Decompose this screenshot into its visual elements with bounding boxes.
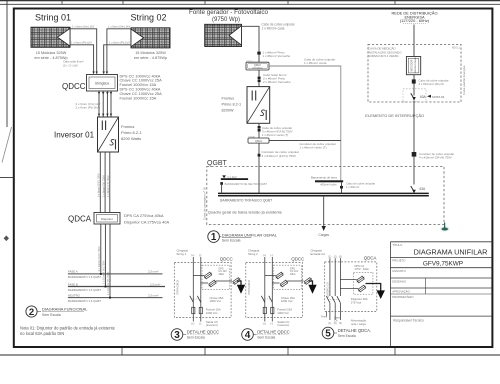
fuse label	[206, 307, 221, 314]
left diamond mark	[4, 236, 9, 242]
svg-text:Sem Escala: Sem Escala	[42, 313, 61, 317]
row line under TITULO	[391, 256, 493, 258]
fuse positive	[263, 307, 266, 313]
svg-text:4 x #16mm² (3F+N): 4 x #16mm² (3F+N)	[419, 82, 444, 86]
column divider	[425, 278, 427, 294]
svg-text:NORMA ND.5.1 CEMIG: NORMA ND.5.1 CEMIG	[368, 54, 399, 58]
svg-text:DETALHE QDCA.: DETALHE QDCA.	[338, 328, 371, 333]
wires stringbox to inverter	[99, 91, 111, 117]
top trim line	[0, 3, 500, 5]
svg-text:1 x #6mm² verde (T): 1 x #6mm² verde (T)	[262, 133, 288, 137]
svg-text:Fonte gerador - Fotovoltaico: Fonte gerador - Fotovoltaico	[189, 9, 269, 16]
svg-text:8200 Watts: 8200 Watts	[121, 136, 141, 141]
varistor earth side	[303, 277, 312, 285]
row line above Responsavel	[391, 315, 493, 317]
wire positive pole	[264, 257, 266, 322]
svg-text:Nota 01: Disjuntor do padrão d: Nota 01: Disjuntor do padrão de entrada …	[20, 326, 116, 331]
grid service wire	[413, 25, 415, 57]
svg-text:Caixa de passagem nº 65: Caixa de passagem nº 65	[202, 187, 206, 220]
QDCC stringbox (functional)	[87, 75, 118, 92]
breaker blade 1	[326, 296, 330, 303]
svg-text:1 x 6mm (Pt) 1kV: 1 x 6mm (Pt) 1kV	[109, 41, 130, 45]
svg-text:8200W: 8200W	[222, 109, 234, 113]
svg-text:em série - 4.875Wp: em série - 4.875Wp	[34, 56, 67, 60]
svg-text:MEDIDOR: MEDIDOR	[410, 60, 413, 72]
detail callout 1	[208, 231, 278, 243]
svg-text:(+): (+)	[191, 322, 194, 325]
fases label	[334, 315, 342, 322]
QDCC detail dashed enclosure	[246, 263, 303, 318]
DPS rating text	[290, 267, 299, 276]
switch blade positive	[190, 296, 194, 303]
detail callout 5	[322, 327, 371, 340]
svg-text:QDCC: QDCC	[220, 256, 233, 261]
svg-text:(2): (2)	[334, 255, 337, 258]
svg-text:(2): (2)	[334, 322, 337, 325]
switch label	[281, 296, 295, 303]
svg-text:(1): (1)	[328, 322, 331, 325]
svg-text:(3): (3)	[339, 255, 342, 258]
svg-text:FASE A: FASE A	[68, 270, 78, 274]
DPS CA rating text	[355, 264, 370, 271]
wire fase 2	[334, 258, 336, 320]
fuse negative	[199, 307, 202, 313]
row line under PROJETO	[391, 267, 493, 269]
svg-text:4: 4	[245, 330, 251, 341]
row line under APROVACAO	[391, 293, 493, 295]
switch gang dashed link	[263, 298, 271, 300]
energy meter	[406, 56, 420, 74]
svg-text:String 1: String 1	[177, 252, 187, 256]
bus line fase B	[68, 286, 165, 288]
svg-text:15 Módulos 325W: 15 Módulos 325W	[36, 51, 67, 55]
fuse positive link	[192, 307, 194, 313]
ground run QDCC to earth bar	[269, 66, 341, 181]
PV array String 01	[31, 27, 70, 47]
svg-text:Sem Escala: Sem Escala	[187, 336, 205, 340]
svg-text:2: 2	[29, 307, 34, 318]
wire QDCA to QGBT bus	[258, 143, 260, 193]
svg-text:(-): (-)	[270, 254, 273, 257]
svg-text:3 x 6mm² (F,F) 750V: 3 x 6mm² (F,F) 750V	[96, 173, 100, 197]
svg-text:Fronius: Fronius	[222, 97, 235, 101]
wire enclosure to junction	[413, 102, 415, 185]
switch blade negative	[269, 296, 273, 303]
incoming label string	[248, 249, 260, 257]
DPS output wire	[288, 280, 304, 282]
svg-text:15 Módulos 325W: 15 Módulos 325W	[135, 51, 166, 55]
wire meter to breaker	[413, 75, 415, 96]
fuse positive link	[264, 307, 266, 313]
tap wire to DPS 2	[272, 282, 279, 284]
meter output connector	[412, 79, 416, 83]
svg-text:275V - 40kA: 275V - 40kA	[355, 267, 370, 271]
earth busbar	[315, 180, 343, 182]
svg-text:1 x 6mm² (T) 750V: 1 x 6mm² (T) 750V	[106, 175, 110, 197]
svg-text:DETALHE QDCC: DETALHE QDCC	[187, 329, 220, 334]
svg-text:Sem Escala: Sem Escala	[257, 336, 275, 340]
svg-text:ND.5.1: ND.5.1	[452, 46, 460, 49]
cable rotated labels below QDCA	[97, 246, 110, 295]
wire breaker to box edge	[413, 101, 415, 102]
varistor DPS 2	[208, 279, 217, 287]
svg-text:Sem Escala: Sem Escala	[222, 238, 241, 242]
bottom tick x205	[204, 347, 206, 355]
svg-text:275 Vca: 275 Vca	[351, 301, 362, 305]
title block left edge	[390, 242, 392, 346]
bottom tick x395	[394, 347, 396, 355]
wire inverter to QDCA	[258, 123, 260, 138]
wire negative pole	[271, 257, 273, 322]
QDCA spec	[124, 213, 169, 225]
svg-text:1000 Vcc: 1000 Vcc	[277, 311, 289, 315]
svg-text:QDCA: QDCA	[68, 215, 92, 224]
svg-text:(+): (+)	[263, 254, 266, 257]
cargas arrowhead	[322, 226, 326, 231]
svg-text:Inversor 01: Inversor 01	[54, 131, 95, 140]
svg-text:QDCC: QDCC	[246, 61, 253, 63]
wire neutro	[339, 258, 341, 320]
svg-text:TITULO: TITULO	[392, 243, 403, 247]
dc cable label	[76, 102, 101, 110]
ac connector pair below inverter	[258, 126, 261, 129]
DPS output wire	[216, 280, 232, 282]
varistor earth side	[232, 277, 241, 285]
earth arrowhead	[308, 285, 316, 294]
bus line neutro	[68, 297, 163, 299]
breaker 63A (entrance)	[411, 93, 416, 101]
nota 01	[20, 326, 116, 337]
breaker blade 3	[337, 296, 341, 303]
varistor DPS 2	[279, 279, 288, 287]
wire fase 1	[329, 258, 331, 320]
ac cable rotated labels above QDCA	[96, 173, 110, 197]
earth bar to bus wire	[341, 182, 343, 193]
wire string1 positive	[70, 29, 97, 73]
DPS rating text	[219, 267, 228, 276]
earth wire label	[346, 181, 375, 188]
QGBT main busbar	[218, 192, 429, 194]
switch label	[210, 296, 224, 303]
svg-text:STRINGBOX: STRINGBOX	[247, 279, 251, 295]
svg-text:(StringBox): (StringBox)	[252, 66, 262, 69]
row line under ASSUNTO	[391, 277, 493, 279]
svg-text:BARRAMENTO TRIFÁSICO QGBT: BARRAMENTO TRIFÁSICO QGBT	[220, 198, 272, 202]
varistor DPS 1	[203, 271, 212, 279]
svg-text:BARRAMENTO DE NEUTRO QGBT: BARRAMENTO DE NEUTRO QGBT	[225, 182, 268, 186]
junction dot line1	[100, 273, 102, 275]
svg-text:QDCC: QDCC	[291, 256, 304, 261]
svg-text:Primo 8.2-1: Primo 8.2-1	[222, 103, 242, 107]
svg-text:40kA: 40kA	[219, 273, 225, 276]
svg-text:Entrada CA: Entrada CA	[311, 252, 326, 256]
QGBT dashed enclosure	[207, 167, 444, 225]
svg-text:1 x 6mm (Vm) 1kV: 1 x 6mm (Vm) 1kV	[108, 25, 130, 29]
earth arrow wire	[309, 281, 313, 286]
ac cable label	[262, 126, 293, 137]
svg-text:Disjuntor CA 275Vca 40A: Disjuntor CA 275Vca 40A	[124, 220, 169, 225]
wire PV to QDCC	[242, 26, 260, 62]
cargas drop	[323, 196, 325, 227]
svg-text:1 x #6mm² cada: 1 x #6mm² cada	[262, 27, 285, 31]
svg-text:em série - 4.875Wp: em série - 4.875Wp	[134, 56, 167, 60]
svg-text:2,5 mm²: 2,5 mm²	[148, 293, 158, 297]
feeder cable label	[262, 150, 300, 158]
svg-text:2,5 mm²: 2,5 mm²	[148, 270, 158, 274]
svg-text:DIAGRAMA FUNCIONAL: DIAGRAMA FUNCIONAL	[42, 307, 88, 312]
switch blade negative	[197, 296, 201, 303]
svg-text:1 x #6mm² verde (T): 1 x #6mm² verde (T)	[299, 145, 326, 149]
svg-text:(-): (-)	[199, 322, 202, 325]
top tick x205	[204, 0, 206, 4]
earth arrow wire	[237, 281, 241, 286]
fuse label	[277, 307, 292, 314]
svg-text:3 x #10mm² (F,F,N) 750V: 3 x #10mm² (F,F,N) 750V	[262, 154, 297, 158]
string 01 module caption	[34, 51, 67, 60]
svg-text:(127/220 - 60Hz): (127/220 - 60Hz)	[400, 18, 430, 23]
svg-text:String 02: String 02	[130, 13, 166, 23]
svg-text:QDCA: QDCA	[364, 256, 377, 261]
switch gang dashed link	[192, 298, 200, 300]
svg-text:DETALHE QDCC: DETALHE QDCC	[257, 329, 290, 334]
svg-text:2 x #6mm² Vermelho: 2 x #6mm² Vermelho	[263, 80, 291, 84]
svg-text:BIDIRECIONAL: BIDIRECIONAL	[414, 56, 417, 72]
svg-text:40kA: 40kA	[290, 273, 296, 276]
svg-text:no local 63A padrão DIN: no local 63A padrão DIN	[20, 331, 64, 336]
DPS dashed sub-box	[274, 265, 302, 289]
svg-text:StringBox: StringBox	[95, 82, 110, 86]
svg-text:1 x 6mm² (N) 750V: 1 x 6mm² (N) 750V	[101, 175, 105, 197]
svg-text:QGBT: QGBT	[207, 160, 228, 167]
breaker blade 2	[332, 296, 336, 303]
neutral bar marker arrow	[222, 175, 226, 178]
output caption QDCA	[351, 318, 367, 325]
svg-text:(-): (-)	[270, 322, 273, 325]
svg-text:1 x 1kV: 1 x 1kV	[227, 175, 236, 179]
svg-text:1: 1	[211, 232, 217, 243]
svg-text:1 x 10mm² (T) 750V: 1 x 10mm² (T) 750V	[106, 272, 110, 295]
svg-text:2 x 6mm (Pt) 1kV: 2 x 6mm (Pt) 1kV	[76, 106, 99, 110]
svg-text:BARRAMENTO 1,5 QGBT: BARRAMENTO 1,5 QGBT	[68, 299, 101, 303]
DPS dashed sub-box	[202, 265, 230, 289]
QDCA box (single-line)	[248, 136, 269, 144]
svg-text:NOTA 01: NOTA 01	[432, 95, 444, 99]
svg-text:DESENHO: DESENHO	[392, 279, 407, 283]
wires inverter to QDCA	[100, 152, 110, 213]
breaker label	[351, 297, 368, 304]
QDCA box (functional)	[94, 213, 120, 225]
switch blade positive	[261, 296, 265, 303]
svg-text:#10mm² cobre: #10mm² cobre	[321, 183, 338, 186]
bottom tick x288	[287, 347, 289, 355]
detail callout 3	[171, 329, 219, 342]
fuse negative link	[200, 307, 202, 313]
earth arrowhead QDCA	[377, 290, 385, 299]
bottom tick x122	[121, 347, 123, 355]
svg-text:1 x #6mm² Vermelho: 1 x #6mm² Vermelho	[263, 54, 291, 58]
left centering tick	[0, 177, 14, 179]
rede heading underline	[403, 22, 426, 24]
svg-text:QDCC: QDCC	[62, 82, 86, 91]
fuse positive	[192, 307, 195, 313]
metering caption	[368, 46, 402, 59]
QDCC box (single-line)	[246, 61, 269, 70]
svg-text:rede / carga: rede / carga	[351, 322, 366, 326]
svg-text:DPS CA 275Vca 40kA: DPS CA 275Vca 40kA	[124, 213, 164, 218]
tap wire to DPS 2	[201, 282, 208, 284]
PV array String 02	[131, 28, 170, 48]
svg-text:QDCA: QDCA	[255, 140, 262, 143]
svg-text:DPS CA: DPS CA	[355, 264, 365, 268]
nota 01 pointer	[427, 95, 431, 98]
junction dot line2	[105, 286, 107, 288]
breaker 63A (QGBT side)	[411, 186, 416, 193]
svg-text:(inversor): (inversor)	[206, 323, 218, 327]
inverter U2 (single-line)	[247, 87, 270, 124]
wire string2 negative	[104, 45, 131, 73]
junction connector 2	[412, 152, 417, 157]
bus line fase A	[68, 273, 163, 275]
svg-text:(2+ / 2-) 1kV: (2+ / 2-) 1kV	[63, 64, 78, 68]
ground cable label	[304, 58, 335, 66]
varistor DPS 1	[275, 271, 284, 279]
exit arrowheads below stringbox	[98, 92, 112, 117]
svg-text:ELEMENTO DE INTERRUPÇÃO: ELEMENTO DE INTERRUPÇÃO	[365, 113, 424, 118]
string 02 module caption	[134, 51, 167, 60]
svg-text:Caixa padrão Energisa: Caixa padrão Energisa	[462, 65, 466, 95]
top tick x62	[61, 0, 63, 4]
output caption	[206, 320, 218, 327]
incoming label string	[177, 249, 189, 257]
breaker gang dashed link	[328, 299, 339, 301]
earth bar junction dot	[340, 186, 343, 189]
varistor DPS CA 1	[356, 275, 365, 283]
svg-text:Primo 8.2-1: Primo 8.2-1	[121, 130, 142, 135]
svg-text:QUADRO CA: QUADRO CA	[326, 282, 330, 298]
svg-text:APROVAÇÃO: APROVAÇÃO	[392, 288, 410, 293]
output caption	[277, 320, 289, 327]
svg-text:NEUTRO: NEUTRO	[68, 293, 81, 297]
svg-text:(9750 Wp): (9750 Wp)	[212, 17, 240, 23]
junction dot line3	[109, 297, 111, 299]
svg-text:Sem Escala: Sem Escala	[338, 334, 356, 338]
top tick x123	[122, 0, 124, 4]
connector label	[419, 79, 449, 87]
svg-text:Cabo solar 6mm²: Cabo solar 6mm²	[63, 60, 84, 64]
svg-text:FASE B: FASE B	[68, 282, 78, 286]
incoming label entrada CA	[311, 248, 326, 256]
svg-text:(+): (+)	[191, 254, 194, 257]
breaker sub-enclosure	[403, 89, 426, 102]
entry arrowheads into stringbox	[92, 72, 108, 75]
QDCC detail dashed enclosure	[174, 263, 231, 318]
fuse negative link	[271, 307, 273, 313]
svg-text:String 01: String 01	[35, 13, 71, 23]
svg-text:(inversor): (inversor)	[277, 323, 289, 327]
terra exit wire	[326, 311, 328, 316]
svg-text:3 x 10mm² (F,F) 750V: 3 x 10mm² (F,F) 750V	[97, 246, 101, 271]
left margin diagonal artifact	[2, 127, 12, 163]
PV array fonte gerador	[205, 24, 242, 46]
svg-text:(3): (3)	[339, 322, 342, 325]
QDCA earth wire label	[299, 142, 335, 150]
tap wire to DPS 1	[265, 275, 276, 277]
svg-text:Disjuntor: Disjuntor	[101, 217, 113, 221]
neutral bar junction dot	[220, 182, 223, 185]
svg-text:PROJETO: PROJETO	[392, 259, 406, 263]
QDCC spec text	[120, 73, 163, 100]
svg-text:BARRAMENTO 1,5 QGBT: BARRAMENTO 1,5 QGBT	[68, 275, 101, 279]
neutral busbar	[221, 178, 248, 180]
inverter spec	[121, 124, 142, 141]
detail callout 4	[242, 329, 290, 342]
svg-text:(1): (1)	[328, 255, 331, 258]
svg-text:Terra: Terra	[321, 315, 327, 319]
wire positive pole	[192, 257, 194, 322]
wire QDCC to inverter	[258, 70, 260, 87]
fuse negative	[271, 307, 274, 313]
svg-text:Quadro geral de baixa tensão j: Quadro geral de baixa tensão já existent…	[208, 210, 283, 215]
title block top edge	[391, 241, 493, 243]
QDCA earth bonding wire	[269, 140, 341, 142]
svg-text:Cargas: Cargas	[318, 233, 329, 237]
wires QDCA to bus lines	[101, 224, 110, 298]
junction label	[419, 152, 454, 160]
connector below QDCA	[258, 154, 261, 157]
svg-text:63A: 63A	[420, 187, 427, 191]
row line under DESENHO	[391, 287, 493, 289]
top tick x395	[394, 0, 396, 4]
rede titles	[391, 11, 437, 24]
neutral bar stub to bus	[221, 185, 223, 194]
svg-text:String 2: String 2	[248, 252, 258, 256]
wire string1 negative	[70, 45, 94, 73]
connector label	[263, 50, 291, 58]
svg-text:4 x #16mm² (3F+N) 750V: 4 x #16mm² (3F+N) 750V	[419, 155, 452, 159]
inverter spec (single-line)	[222, 97, 242, 113]
svg-text:Barramento de terra: Barramento de terra	[311, 175, 337, 179]
detail callout 2	[26, 306, 88, 318]
svg-text:Responsável Técnico: Responsável Técnico	[393, 319, 424, 323]
svg-text:QDCA: QDCA	[248, 136, 255, 139]
svg-text:GFV9,75KWP: GFV9,75KWP	[423, 261, 463, 268]
wire string2 positive	[107, 29, 131, 73]
svg-text:1 x 10mm² (N) 750V: 1 x 10mm² (N) 750V	[101, 260, 105, 284]
DPS CA dashed sub-box	[353, 272, 373, 294]
svg-text:1000 Vcc: 1000 Vcc	[206, 311, 218, 315]
left trim line	[6, 1, 8, 127]
svg-text:1000 Vcc: 1000 Vcc	[281, 299, 293, 303]
svg-text:Fronius: Fronius	[121, 124, 134, 129]
cable label	[262, 23, 296, 31]
svg-text:(+): (+)	[263, 322, 266, 325]
wire negative pole	[200, 257, 202, 322]
svg-text:(-): (-)	[199, 254, 202, 257]
junction connector	[257, 52, 260, 55]
svg-text:ASSUNTO: ASSUNTO	[392, 269, 406, 273]
svg-text:STRINGBOX: STRINGBOX	[176, 279, 180, 295]
tap wire to DPS CA 1	[340, 279, 356, 281]
svg-text:3: 3	[174, 330, 180, 341]
svg-text:BARRAMENTO 1,5 QGBT: BARRAMENTO 1,5 QGBT	[68, 288, 101, 292]
inverter U1 (functional)	[98, 117, 119, 152]
svg-text:DIAGRAMA UNIFILAR: DIAGRAMA UNIFILAR	[414, 248, 488, 257]
svg-text:5: 5	[325, 329, 331, 340]
tap wire to DPS 1	[193, 275, 204, 277]
bus line labels	[68, 270, 160, 303]
svg-text:DIAGRAMA UNIFILAR GERAL: DIAGRAMA UNIFILAR GERAL	[222, 232, 278, 237]
tap wire to DPS CA 2	[340, 288, 358, 290]
